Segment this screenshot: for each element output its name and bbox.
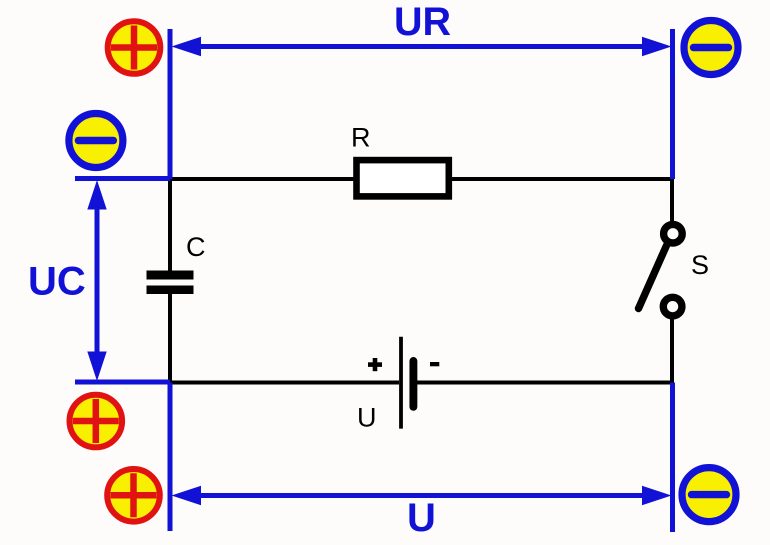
polarity plus marker top-left <box>108 21 161 74</box>
wire top (node between R ends) <box>170 177 672 181</box>
U arrowhead left <box>172 486 202 505</box>
wire bottom right (from battery) <box>415 381 672 385</box>
dimension ext line top-left vertical <box>168 29 173 179</box>
polarity minus marker left <box>69 114 123 168</box>
UR arrowhead left <box>172 37 202 56</box>
switch S bottom contact <box>663 297 682 316</box>
svg-text:U: U <box>407 496 436 540</box>
polarity minus marker bottom-right <box>682 468 736 522</box>
battery U (short thick plate) <box>409 361 417 407</box>
U arrowhead right <box>642 486 672 505</box>
capacitor C <box>147 271 194 295</box>
UC ext line upper horizontal <box>75 176 170 181</box>
U arrow shaft <box>196 493 648 498</box>
svg-text:C: C <box>186 232 206 262</box>
battery U (long plate) <box>399 337 403 429</box>
wire left branch (capacitor leads) <box>168 179 172 383</box>
svg-text:UC: UC <box>28 260 86 304</box>
resistor R <box>357 160 449 196</box>
dimension ext line bottom-left vertical <box>168 383 173 532</box>
polarity minus marker top-right <box>684 21 738 75</box>
switch S lever <box>639 246 667 309</box>
svg-text:UR: UR <box>394 0 451 44</box>
UC arrowhead top <box>87 180 106 210</box>
wire bottom left (to battery) <box>168 381 399 385</box>
dimension ext line bottom-right vertical <box>670 383 675 533</box>
UC ext line lower horizontal <box>75 380 170 385</box>
svg-text:U: U <box>357 403 377 433</box>
UC arrowhead bottom <box>87 352 106 382</box>
polarity plus marker bottom-left <box>107 469 160 522</box>
UR arrow shaft <box>196 44 648 49</box>
wire right branch (switch leads) <box>670 179 674 383</box>
svg-text:S: S <box>691 250 709 280</box>
battery plus mark <box>368 358 382 371</box>
switch S top contact <box>664 224 683 243</box>
svg-text:R: R <box>351 123 371 153</box>
dimension ext line top-right vertical <box>670 29 675 179</box>
UC arrow shaft <box>95 205 100 356</box>
polarity plus marker mid-left <box>70 395 123 448</box>
battery minus mark <box>430 362 439 366</box>
UR arrowhead right <box>642 37 672 56</box>
